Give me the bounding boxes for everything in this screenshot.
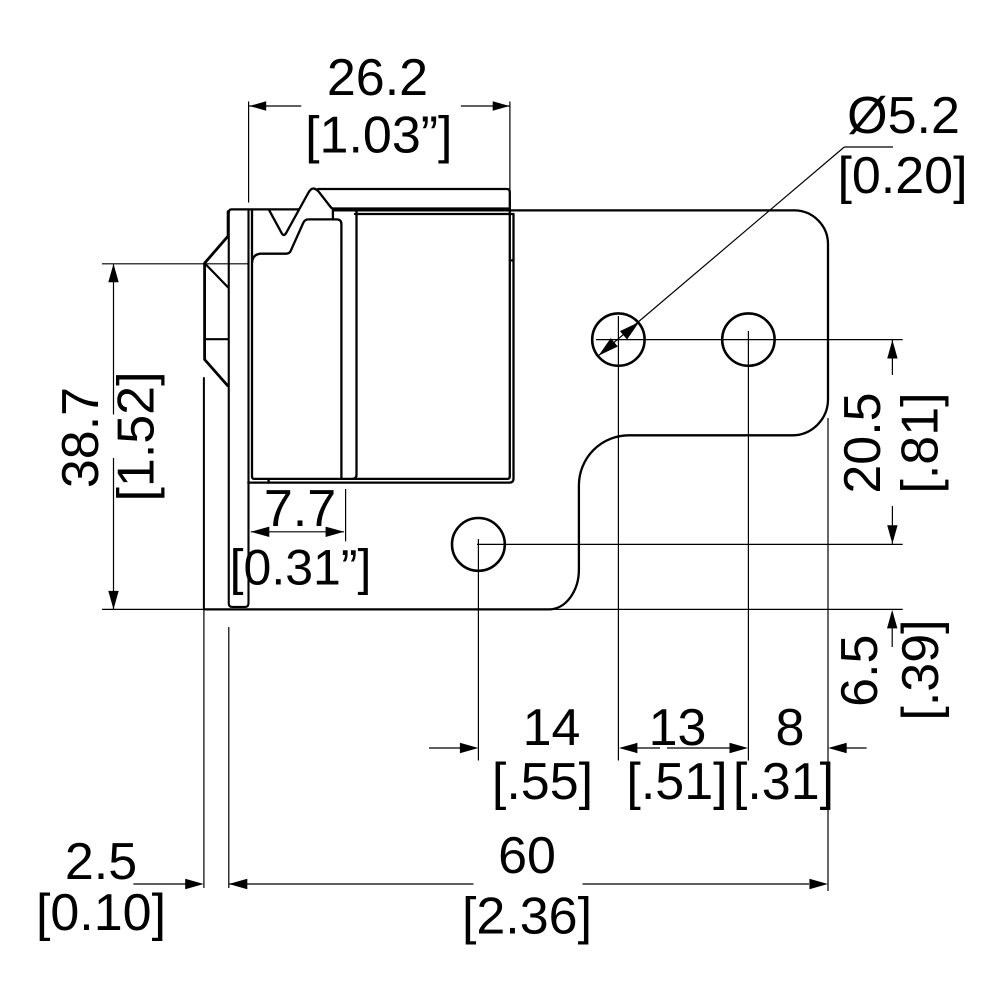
svg-text:26.2: 26.2: [327, 49, 428, 107]
svg-text:[0.20]: [0.20]: [837, 147, 967, 205]
svg-text:[.31]: [.31]: [733, 753, 834, 811]
svg-text:14: 14: [523, 699, 581, 757]
svg-text:[.39]: [.39]: [892, 619, 950, 720]
svg-text:8: 8: [776, 699, 805, 757]
svg-text:2.5: 2.5: [65, 833, 137, 891]
svg-text:13: 13: [649, 699, 707, 757]
svg-text:38.7: 38.7: [52, 387, 110, 488]
svg-text:[2.36]: [2.36]: [462, 888, 592, 946]
svg-text:60: 60: [498, 827, 556, 885]
svg-text:6.5: 6.5: [831, 635, 889, 707]
svg-text:[0.31”]: [0.31”]: [230, 540, 372, 596]
svg-text:[.55]: [.55]: [492, 753, 593, 811]
svg-text:Ø5.2: Ø5.2: [847, 87, 960, 145]
svg-text:[.51]: [.51]: [626, 753, 727, 811]
svg-text:20.5: 20.5: [834, 392, 892, 493]
svg-text:[1.03”]: [1.03”]: [305, 107, 452, 165]
svg-text:[0.10]: [0.10]: [36, 884, 166, 942]
svg-text:[.81]: [.81]: [892, 392, 950, 493]
svg-text:7.7: 7.7: [264, 480, 336, 538]
svg-text:[1.52]: [1.52]: [108, 371, 166, 501]
